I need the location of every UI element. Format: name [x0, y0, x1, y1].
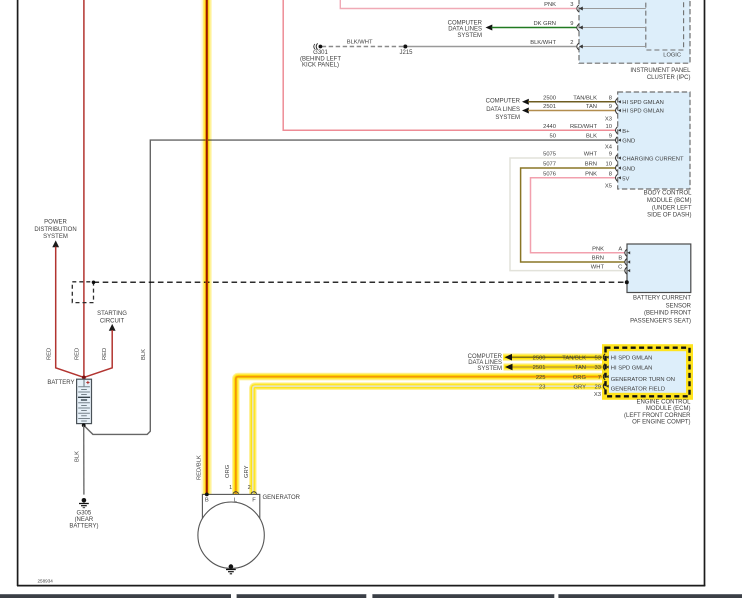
svg-text:5075: 5075 [543, 152, 556, 158]
svg-text:DATA LINES: DATA LINES [468, 360, 502, 366]
svg-text:MODULE (BCM): MODULE (BCM) [647, 198, 692, 204]
svg-text:DISTRIBUTION: DISTRIBUTION [34, 227, 76, 233]
svg-text:COMPUTER: COMPUTER [486, 99, 521, 105]
wire TAN 2501 to BCM X3-9 [522, 104, 615, 113]
svg-text:PNK: PNK [585, 171, 597, 177]
generator circle [198, 502, 264, 568]
svg-text:CIRCUIT: CIRCUIT [100, 318, 125, 324]
svg-text:MODULE (ECM): MODULE (ECM) [646, 406, 691, 412]
svg-text:50: 50 [550, 134, 556, 140]
svg-text:10: 10 [606, 124, 612, 130]
svg-text:BLK: BLK [141, 349, 147, 360]
BCM pin connectors and internal labels [616, 98, 684, 182]
label ENGINE CONTROL MODULE (ECM) (LEFT FRONT CORNER OF ENGINE COMPT) [624, 400, 691, 426]
svg-text:C: C [618, 264, 622, 270]
svg-text:RED: RED [47, 348, 53, 360]
svg-text:DATA LINES: DATA LINES [486, 107, 520, 113]
label COMPUTER DATA LINES SYSTEM (top) [448, 20, 483, 39]
svg-text:3: 3 [570, 2, 573, 8]
svg-text:SYSTEM: SYSTEM [43, 234, 68, 240]
battery B1 [77, 379, 92, 423]
label INSTRUMENT PANEL CLUSTER (IPC) [630, 68, 691, 81]
wire label 50 BLK to BCM X4-9 [550, 134, 612, 140]
ECM pin connectors and internal labels [603, 354, 675, 393]
frame bottom border [17, 585, 705, 587]
battery current sensor box [627, 244, 691, 293]
svg-text:RED: RED [102, 348, 108, 360]
svg-text:258934: 258934 [38, 579, 54, 584]
label POWER DISTRIBUTION SYSTEM [34, 220, 76, 241]
svg-text:WHT: WHT [591, 264, 605, 270]
svg-text:A: A [618, 247, 622, 253]
svg-text:CHARGING CURRENT: CHARGING CURRENT [622, 156, 684, 162]
logic sub-box [646, 0, 684, 50]
svg-text:ORG: ORG [225, 464, 231, 478]
wire RED to starting circuit [84, 330, 112, 377]
wire TAN/BLK 2500 ECM X3-53 (highlighted) [503, 354, 604, 361]
svg-text:53: 53 [595, 355, 601, 361]
svg-text:BLK/WHT: BLK/WHT [347, 39, 373, 45]
svg-text:BRN: BRN [585, 162, 597, 168]
svg-text:GENERATOR FIELD: GENERATOR FIELD [611, 386, 665, 392]
node splice junction dot [92, 281, 96, 285]
wire RED/BLK generator B+ highlight glow [202, 0, 212, 494]
arrow to power distribution system [52, 240, 59, 247]
svg-text:TAN/BLK: TAN/BLK [562, 355, 586, 361]
generator terminal labels B L F [205, 498, 256, 504]
svg-text:(BEHIND LEFT: (BEHIND LEFT [300, 56, 341, 62]
svg-text:5076: 5076 [543, 171, 556, 177]
svg-text:TAN: TAN [586, 104, 597, 110]
body control module BCM box [618, 92, 690, 189]
svg-text:(LEFT FRONT CORNER: (LEFT FRONT CORNER [624, 413, 691, 419]
sensor pin B BRN [592, 256, 630, 266]
ground at generator [226, 564, 236, 574]
svg-text:BATTERY): BATTERY) [69, 524, 98, 530]
svg-text:8: 8 [609, 171, 612, 177]
frame left border [17, 0, 19, 586]
svg-text:RED: RED [75, 348, 81, 360]
svg-text:X4: X4 [605, 145, 613, 151]
IPC internal wire pin 3 [577, 5, 646, 12]
svg-text:COMPUTER: COMPUTER [448, 20, 483, 26]
svg-text:HI SPD GMLAN: HI SPD GMLAN [611, 355, 653, 361]
svg-text:G301: G301 [313, 50, 328, 56]
svg-text:X3: X3 [605, 117, 612, 123]
svg-text:RED/WHT: RED/WHT [570, 124, 598, 130]
svg-text:X3: X3 [594, 392, 601, 398]
svg-text:X5: X5 [605, 183, 612, 189]
svg-text:TAN/BLK: TAN/BLK [573, 95, 597, 101]
svg-text:ENGINE CONTROL: ENGINE CONTROL [636, 400, 691, 406]
svg-text:DATA LINES: DATA LINES [448, 27, 482, 33]
IPC internal wire pin 9 [577, 24, 646, 31]
svg-text:SYSTEM: SYSTEM [495, 115, 520, 121]
sensor pin C WHT [591, 264, 630, 274]
svg-text:GENERATOR TURN ON: GENERATOR TURN ON [611, 377, 675, 383]
svg-text:F: F [252, 498, 256, 504]
svg-text:B: B [205, 498, 209, 504]
svg-text:PASSENGER'S SEAT): PASSENGER'S SEAT) [630, 319, 691, 325]
svg-text:9: 9 [609, 134, 612, 140]
svg-text:9: 9 [609, 152, 612, 158]
sensor pin A PNK [592, 247, 630, 257]
svg-text:2: 2 [570, 40, 573, 46]
wire labels 23 GRY 29 [539, 384, 601, 390]
wire labels 225 ORG 7 [536, 375, 601, 381]
svg-text:BODY CONTROL: BODY CONTROL [644, 190, 693, 196]
svg-text:BATTERY: BATTERY [47, 380, 74, 386]
wire WHT 5075 BCM X5-9 to sensor C [510, 152, 625, 271]
svg-text:(NEAR: (NEAR [75, 517, 94, 523]
svg-text:LOGIC: LOGIC [663, 53, 681, 59]
label G305 (NEAR BATTERY) [69, 510, 98, 529]
svg-text:8: 8 [609, 95, 612, 101]
svg-text:COMPUTER: COMPUTER [468, 354, 503, 360]
svg-text:POWER: POWER [44, 220, 67, 226]
svg-text:GRY: GRY [574, 384, 587, 390]
svg-text:B: B [618, 256, 622, 262]
svg-text:STARTING: STARTING [97, 311, 127, 317]
generator terminal box [202, 494, 259, 518]
svg-text:HI SPD GMLAN: HI SPD GMLAN [611, 365, 653, 371]
wire TAN/BLK 2500 to BCM X3-8 [522, 95, 615, 104]
svg-text:ORG: ORG [573, 375, 587, 381]
svg-text:SYSTEM: SYSTEM [477, 366, 502, 372]
dashed wire to battery current sensor [94, 281, 627, 283]
svg-text:TAN: TAN [575, 365, 586, 371]
svg-text:BLK/WHT: BLK/WHT [530, 40, 556, 46]
footer segment 2 [237, 594, 367, 598]
svg-text:HI SPD GMLAN: HI SPD GMLAN [622, 109, 664, 115]
wire BRN 5077 BCM X5-10 to sensor B [521, 162, 625, 262]
svg-text:SYSTEM: SYSTEM [457, 33, 482, 39]
svg-text:WHT: WHT [584, 152, 598, 158]
arrow to starting circuit [109, 324, 116, 331]
svg-text:PNK: PNK [592, 247, 604, 253]
svg-text:2500: 2500 [543, 95, 556, 101]
node battery negative junction [82, 423, 86, 427]
svg-text:10: 10 [606, 162, 612, 168]
label BATTERY CURRENT SENSOR (BEHIND FRONT PASSENGER'S SEAT) [630, 296, 692, 325]
svg-text:(UNDER LEFT: (UNDER LEFT [652, 206, 692, 212]
svg-text:SIDE OF DASH): SIDE OF DASH) [647, 212, 691, 218]
wire RED/WHT 2440 battery feed to BCM X4-10 [283, 0, 615, 130]
svg-text:B+: B+ [622, 129, 630, 135]
frame right border [704, 0, 706, 586]
svg-text:33: 33 [595, 365, 601, 371]
splice dashed box on red wire [72, 282, 93, 303]
wire GRY 23 generator F to ECM (highlighted) [253, 386, 604, 494]
svg-text:2501: 2501 [533, 365, 546, 371]
wire labels 2501 TAN 33 [533, 365, 601, 371]
svg-text:2500: 2500 [533, 355, 546, 361]
svg-text:GRY: GRY [244, 465, 250, 478]
svg-text:225: 225 [536, 375, 546, 381]
wire PNK to IPC pin 3 [340, 0, 576, 9]
wire RED battery feed (main vertical) [83, 0, 85, 377]
svg-text:KICK PANEL): KICK PANEL) [302, 63, 339, 69]
svg-text:DK GRN: DK GRN [533, 21, 556, 27]
footer segment 1 [0, 594, 231, 598]
label BODY CONTROL MODULE (BCM) (UNDER LEFT SIDE OF DASH) [644, 190, 693, 218]
svg-text:GENERATOR: GENERATOR [263, 495, 301, 501]
svg-text:BLK: BLK [586, 134, 597, 140]
svg-text:(BEHIND FRONT: (BEHIND FRONT [644, 311, 691, 317]
wire PNK 5076 BCM X5-8 to sensor A [531, 171, 625, 252]
wire BLK battery negative to BCM GND (50 BLK) [84, 140, 616, 434]
wire labels 2500 TAN/BLK 53 [533, 355, 601, 361]
svg-text:G305: G305 [77, 510, 92, 516]
svg-text:5V: 5V [622, 176, 629, 182]
svg-text:BRN: BRN [592, 256, 604, 262]
svg-text:2: 2 [248, 485, 251, 491]
engine control module ECM box (highlighted) [606, 348, 690, 397]
svg-text:2501: 2501 [543, 104, 556, 110]
svg-text:INSTRUMENT PANEL: INSTRUMENT PANEL [630, 68, 691, 74]
label STARTING CIRCUIT [97, 311, 127, 324]
wire TAN 2501 ECM X3-33 (highlighted) [504, 364, 604, 371]
ground G305 [79, 498, 89, 508]
svg-text:BLK: BLK [74, 451, 80, 462]
svg-text:OF ENGINE COMPT): OF ENGINE COMPT) [632, 419, 690, 425]
footer segment 4 [558, 594, 742, 598]
wire BLK/WHT solid J215 to IPC pin 2 [405, 46, 576, 48]
node battery positive junction [82, 376, 86, 380]
svg-text:29: 29 [595, 384, 601, 390]
svg-text:GND: GND [622, 167, 635, 173]
svg-text:2440: 2440 [543, 124, 556, 130]
svg-text:GND: GND [622, 139, 635, 145]
arrow to computer data lines system (DK GRN) [486, 25, 493, 31]
label COMPUTER DATA LINES SYSTEM (BCM) [486, 99, 521, 122]
svg-text:PNK: PNK [544, 2, 556, 8]
label G301 (BEHIND LEFT KICK PANEL) [300, 50, 341, 69]
wire RED to power distribution system [56, 247, 84, 378]
svg-text:RED/BLK: RED/BLK [197, 455, 203, 480]
generator pin connectors on top edge [233, 492, 257, 494]
svg-text:9: 9 [609, 104, 612, 110]
svg-text:23: 23 [539, 384, 545, 390]
svg-text:SENSOR: SENSOR [666, 303, 692, 309]
svg-text:J215: J215 [399, 50, 413, 56]
footer segment 3 [372, 594, 554, 598]
svg-text:1: 1 [229, 485, 232, 491]
wire DK GRN to IPC pin 9 [492, 27, 577, 29]
svg-text:BATTERY CURRENT: BATTERY CURRENT [633, 296, 691, 302]
svg-text:5077: 5077 [543, 162, 556, 168]
wire RED/BLK generator B+ core [206, 0, 209, 494]
node dashed wire junction at sensor [625, 280, 629, 284]
node J215 junction [403, 45, 407, 49]
ground G301 [314, 43, 323, 49]
wire BLK battery to ground G305 [83, 425, 85, 494]
IPC internal wire pin 2 [577, 43, 646, 50]
wire BLK/WHT dashed G301 to J215 [322, 46, 406, 48]
label COMPUTER DATA LINES SYSTEM (ECM) [468, 354, 503, 372]
svg-text:9: 9 [570, 21, 573, 27]
svg-text:HI SPD GMLAN: HI SPD GMLAN [622, 100, 664, 106]
node generator B terminal junction [205, 493, 209, 497]
instrument panel cluster IPC box [579, 0, 690, 63]
svg-text:CLUSTER (IPC): CLUSTER (IPC) [647, 75, 691, 81]
wire ORG 225 generator L to ECM (highlighted) [236, 377, 604, 495]
svg-text:7: 7 [598, 375, 601, 381]
